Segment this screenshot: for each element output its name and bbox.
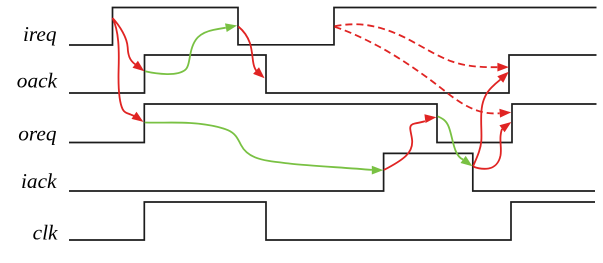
arrow red A: ireq rise 1 to oack rise 1 xyxy=(113,18,145,71)
svg-text:clk: clk xyxy=(33,221,58,245)
arrow red F: iack fall to oack rise 2 xyxy=(473,72,509,167)
wire waveform iack xyxy=(69,153,595,191)
wire waveform clk xyxy=(69,202,595,240)
wire waveform ireq xyxy=(69,8,597,46)
arrow green H: oreq rise 1 to iack rise xyxy=(145,123,384,175)
arrow red E: iack fall to oreq rise 2 xyxy=(473,122,511,169)
arrow green I: oreq fall to iack fall xyxy=(438,116,473,166)
svg-text:oreq: oreq xyxy=(18,122,57,146)
arrow red C: ireq fall 1 to oack fall 1 xyxy=(238,27,264,79)
svg-text:ireq: ireq xyxy=(23,22,57,46)
wire waveform oreq xyxy=(69,104,597,143)
arrow red dashed J: ireq rise 2 to oack rise 2 xyxy=(335,24,509,71)
arrow red dashed K: ireq rise 2 to oreq rise 2 xyxy=(335,27,512,118)
svg-text:iack: iack xyxy=(21,169,57,193)
arrow red B: ireq rise 1 to oreq rise 1 xyxy=(113,18,144,122)
svg-text:oack: oack xyxy=(17,69,58,93)
wire waveform oack xyxy=(69,55,597,93)
arrow green G: oack rise 1 to ireq fall 1 xyxy=(145,23,237,74)
arrow red D: iack rise to oreq fall xyxy=(384,114,437,170)
